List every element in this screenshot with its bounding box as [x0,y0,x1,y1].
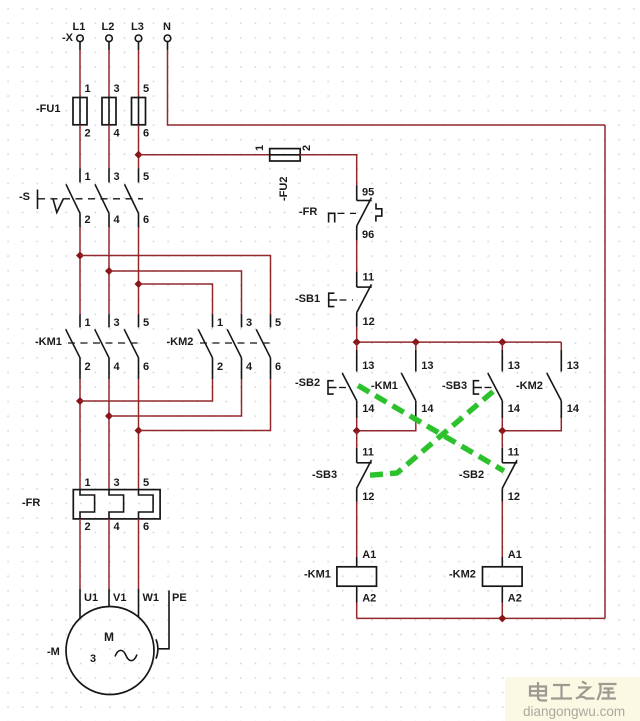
svg-text:5: 5 [143,477,149,489]
svg-text:12: 12 [363,316,375,328]
svg-text:2: 2 [217,361,223,373]
svg-text:2: 2 [301,145,313,151]
coil KM2 [483,549,523,605]
mechanical link SB3 to SB3NC (green) [367,392,494,476]
svg-text:2: 2 [85,214,91,226]
svg-text:-FR: -FR [299,206,317,218]
svg-text:6: 6 [143,128,149,140]
svg-text:12: 12 [362,491,374,503]
svg-text:N: N [163,21,171,33]
wire tap to FU2 [139,154,270,156]
fuse FU1 pole 3 [132,83,150,140]
svg-text:-SB3: -SB3 [442,380,467,392]
svg-text:2: 2 [85,128,91,140]
bottom rail [357,617,605,619]
terminal L2 [106,35,113,42]
svg-text:14: 14 [362,403,375,415]
svg-text:-X: -X [62,32,74,44]
svg-text:3: 3 [114,477,120,489]
interlock SB3 NC [357,431,375,503]
svg-text:3: 3 [114,171,120,183]
wire L1 terminal to FU1 [79,42,81,50]
svg-text:-FR: -FR [22,497,40,509]
aux contact KM1 NO [357,342,435,431]
svg-text:96: 96 [362,229,374,241]
node bottom rail [498,614,506,622]
FR heater element 2 [109,477,124,533]
svg-text:1: 1 [254,145,266,151]
wire L1 feed to KM2 right pole [80,256,271,315]
SB3 button actuator [474,381,483,394]
svg-text:-M: -M [47,646,60,658]
wire KM2 coil to bottom rail [501,603,503,619]
start button SB3 NO [488,342,521,431]
wire FR to motor U1 [79,519,81,589]
terminal strip -X labels [62,21,171,44]
contactor KM2 main pole 3 [256,315,281,380]
svg-text:V1: V1 [113,592,126,604]
fuse FU1 pole 1 [73,83,91,140]
fuse FU2 [254,145,313,201]
svg-text:12: 12 [508,491,520,503]
svg-text:M: M [104,630,114,644]
wire FU2 to FR contact [300,155,357,186]
KM2 linkage dashes [200,342,273,344]
svg-text:5: 5 [143,317,149,329]
svg-text:-KM2: -KM2 [516,380,543,392]
svg-text:-KM2: -KM2 [449,569,476,581]
wire KM2 pole2 bottom to V phase [109,379,242,416]
svg-text:A1: A1 [508,549,522,561]
wire FU1 to switch S pole1 [79,125,81,169]
wire FU1 to switch S pole2 [108,125,110,169]
svg-text:A1: A1 [362,549,376,561]
wire L3 feed to KM2 left pole [139,284,213,315]
node KM2 pole3 join W [135,427,143,435]
svg-text:11: 11 [363,272,375,284]
svg-text:1: 1 [217,317,223,329]
node L2 feed to KM2 [105,267,113,275]
node rail c2 [412,338,420,346]
wire L2 terminal to FU1 [108,42,110,50]
svg-text:-FU1: -FU1 [36,103,60,115]
svg-text:6: 6 [143,214,149,226]
svg-text:13: 13 [362,360,374,372]
svg-text:4: 4 [114,214,121,226]
wire FR to motor W1 [138,519,140,589]
svg-text:-SB1: -SB1 [295,293,320,305]
svg-text:2: 2 [85,361,91,373]
svg-text:3: 3 [114,317,120,329]
svg-text:2: 2 [85,521,91,533]
FR release hook [376,203,382,221]
svg-text:4: 4 [114,128,121,140]
svg-text:-FU2: -FU2 [278,177,290,201]
wire N terminal down and across to right edge [167,42,169,50]
svg-text:4: 4 [114,361,121,373]
node tap to control circuit [135,151,143,159]
wire KM1 pole3 down to FR [138,379,140,490]
FR NC contact 95-96 [357,186,375,242]
wire FR contact to SB1 [356,240,358,272]
svg-text:13: 13 [567,360,579,372]
coil KM1 [337,549,377,605]
svg-text:1: 1 [85,171,91,183]
switch S handle [19,190,143,213]
switch S pole 1 [66,169,91,228]
mechanical link SB2 to SB2NC (green) [358,386,504,472]
fuse FU1 pole 2 [102,83,121,140]
svg-text:5: 5 [143,83,149,95]
svg-text:11: 11 [508,447,520,459]
svg-text:A2: A2 [362,593,376,605]
svg-text:6: 6 [143,361,149,373]
wire L2 feed to KM2 middle pole [109,271,242,315]
motor text M 3~ [90,630,137,665]
wire L3 terminal to FU1 [138,42,140,50]
svg-text:14: 14 [421,403,434,415]
node KM2 pole2 join V [105,412,113,420]
svg-text:13: 13 [508,360,520,372]
watermark site name [505,677,640,721]
node rail c3 [498,338,506,346]
thermal relay FR outer box [73,490,160,519]
svg-text:11: 11 [362,447,374,459]
start button SB2 NO [342,342,375,431]
KM1 linkage dashes [68,342,141,344]
svg-text:diangongwu.com: diangongwu.com [523,704,625,719]
svg-text:-KM2: -KM2 [167,336,194,348]
svg-text:1: 1 [85,83,91,95]
FR heater element 1 [80,477,95,533]
SB2 button actuator [328,381,337,394]
PE frame arc [156,639,158,658]
contactor KM2 main pole 1 [198,315,223,380]
svg-text:3: 3 [90,653,96,665]
interlock SB2 NC [502,431,520,503]
SB1 button actuator [329,293,338,306]
stop button SB1 NC [357,272,375,329]
switch S pole 3 [125,169,150,228]
svg-text:1: 1 [85,317,91,329]
svg-text:L2: L2 [102,21,115,33]
wire SB3NC to KM1 coil [356,502,358,558]
wire S pole3 to KM1 pole3 [138,227,140,315]
svg-text:95: 95 [362,187,374,199]
aux contact KM2 NO [502,342,580,431]
svg-text:3: 3 [114,83,120,95]
svg-text:-KM1: -KM1 [371,380,398,392]
wire S pole2 to KM1 pole2 [108,227,110,315]
svg-text:6: 6 [275,361,281,373]
control rail [357,341,562,343]
svg-text:-SB2: -SB2 [459,469,484,481]
svg-text:-KM1: -KM1 [35,336,62,348]
motor terminal labels [84,592,187,604]
wire KM1 coil to bottom rail [356,603,358,619]
svg-text:PE: PE [172,592,187,604]
node L1 feed to KM2 [76,252,84,260]
contactor KM1 main pole 2 [95,315,121,380]
terminal L1 [77,35,84,42]
switch S pole 2 [95,169,121,228]
wire KM1 pole2 down to FR [108,379,110,490]
svg-text:-SB3: -SB3 [312,469,337,481]
svg-text:W1: W1 [143,592,160,604]
node KM2 pole1 join U [76,397,84,405]
svg-text:-KM1: -KM1 [304,569,331,581]
svg-text:5: 5 [275,317,281,329]
watermark panel [505,677,640,721]
svg-text:L3: L3 [131,21,144,33]
PE conductor [158,591,169,649]
svg-text:U1: U1 [84,592,98,604]
svg-text:1: 1 [85,477,91,489]
wire SB2NC to KM2 coil [501,502,503,558]
svg-text:-S: -S [19,191,30,203]
wire FR to motor V1 [108,519,110,589]
FR heater element 3 [139,477,154,533]
wire FU1 to switch S pole3 (control tap) [138,125,140,169]
node c1 bottom rail [353,427,361,435]
contactor KM2 main pole 2 [227,315,253,380]
svg-text:-SB2: -SB2 [295,377,320,389]
svg-text:A2: A2 [508,593,522,605]
wire right edge down [604,125,606,618]
wire SB1 to rail [356,327,358,343]
motor M circle [66,607,154,695]
svg-text:4: 4 [114,521,121,533]
svg-text:13: 13 [421,360,433,372]
svg-text:5: 5 [143,171,149,183]
contactor KM1 main pole 3 [124,315,149,380]
wire S pole1 to KM1 pole1 [79,227,81,315]
node L3 feed to KM2 [135,280,143,288]
terminal L3 [135,35,142,42]
contactor KM1 main pole 1 [66,315,91,380]
svg-text:4: 4 [246,361,253,373]
terminal N [164,35,171,42]
wire KM2 pole3 bottom to W phase [139,379,271,431]
svg-text:14: 14 [567,403,580,415]
wire KM2 pole1 bottom to U phase [80,379,213,401]
FR trip actuator [329,213,335,222]
svg-text:3: 3 [246,317,252,329]
node c3 bottom rail [498,427,506,435]
svg-text:14: 14 [508,403,521,415]
node rail c1 [353,338,361,346]
svg-text:6: 6 [143,521,149,533]
svg-text:L1: L1 [73,21,86,33]
wire KM1 pole1 down to FR [79,379,81,490]
